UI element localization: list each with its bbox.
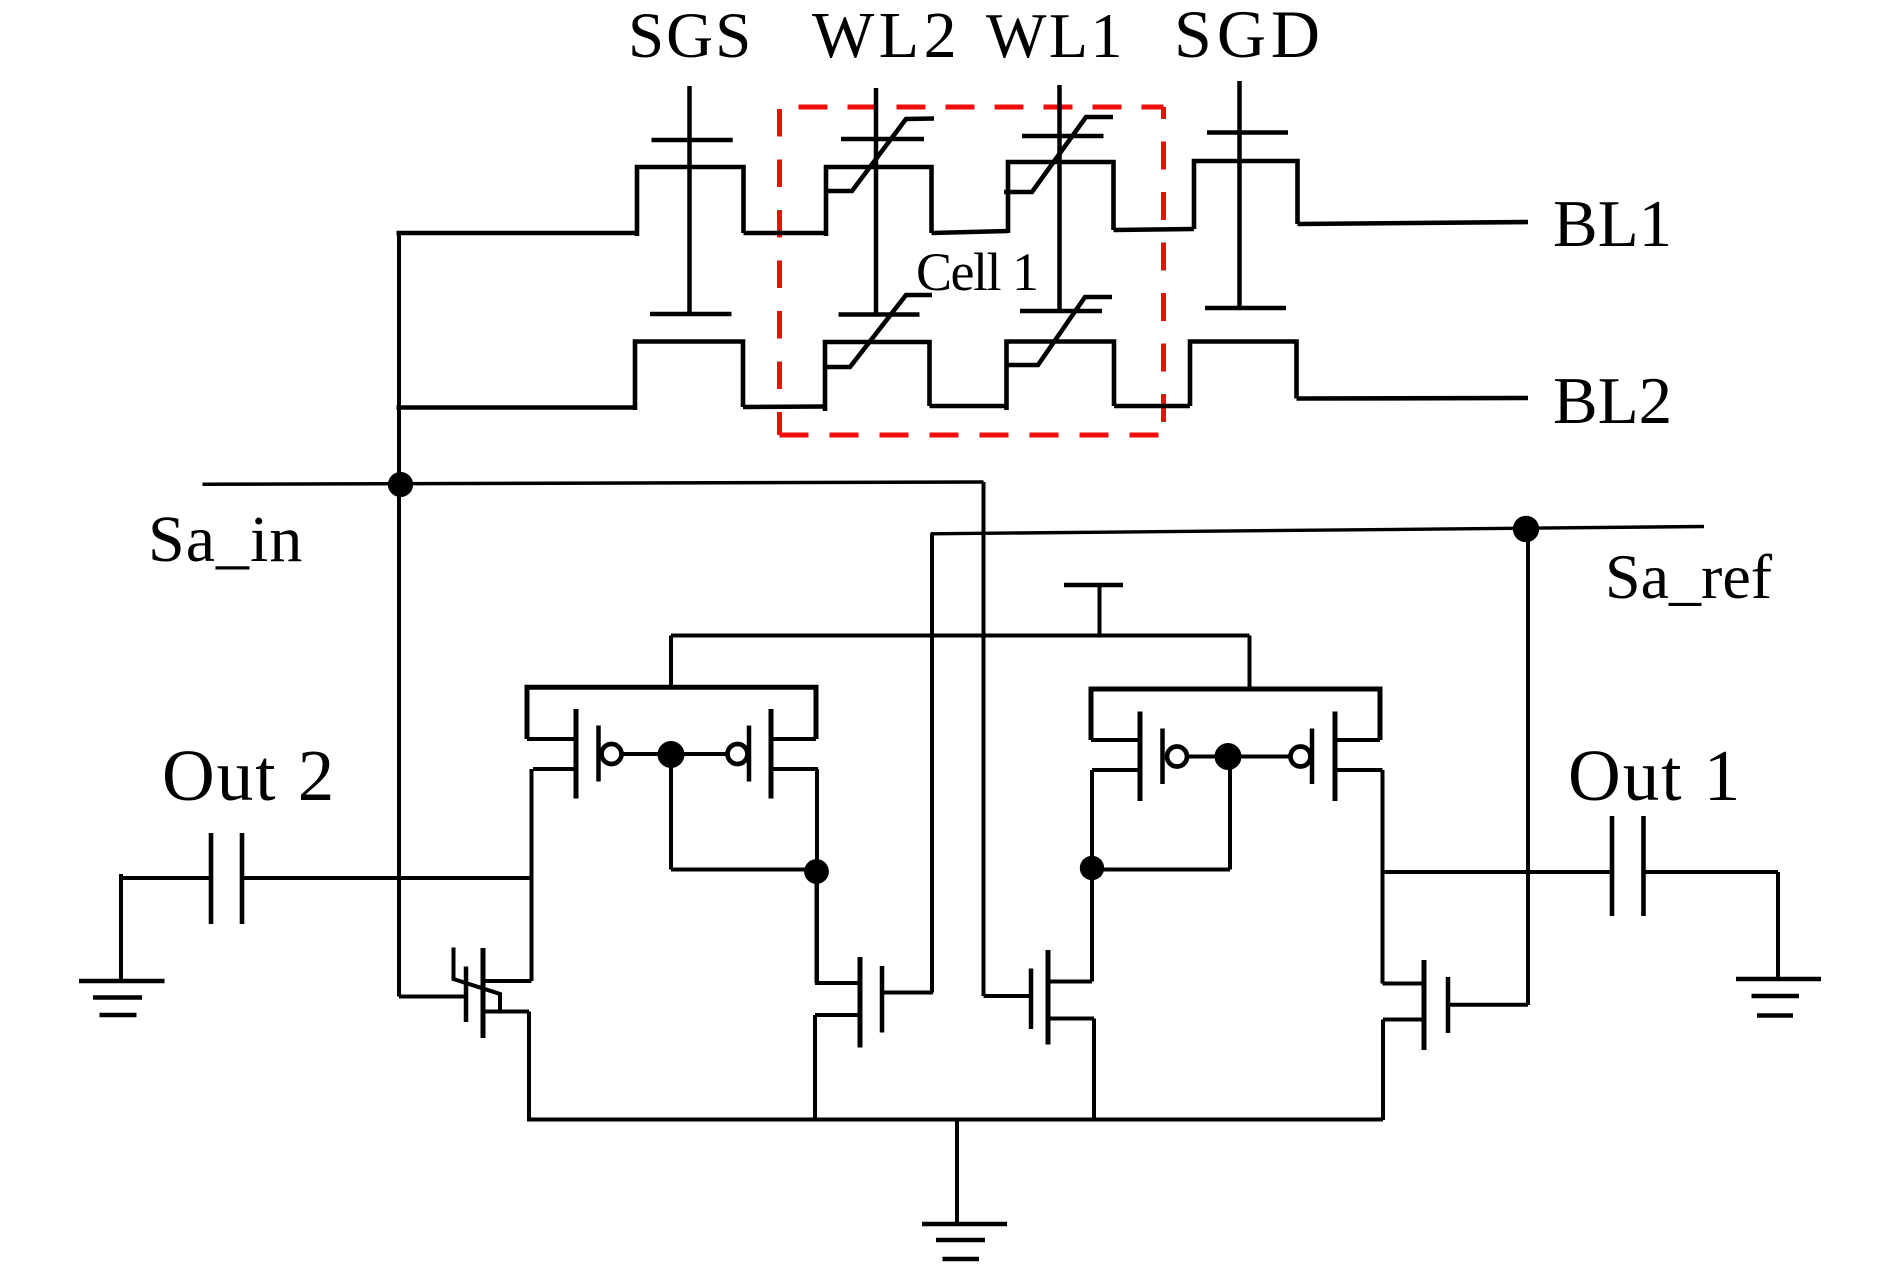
- transistor SGD channel BL2: [1190, 342, 1297, 407]
- ground tail symbol: [922, 1224, 1007, 1259]
- wire BL2 WL1-SGD: [1114, 404, 1190, 409]
- wire P2 drain down: [815, 769, 819, 983]
- nmos M3 gate bar: [880, 966, 885, 1033]
- pmos P3 channel bar: [1138, 712, 1143, 802]
- transistor SGS gate line: [687, 86, 692, 314]
- wire M1 source down: [527, 1012, 531, 1122]
- wire Sa_ref right vertical: [1526, 529, 1530, 1005]
- wire right latch gate: [1188, 755, 1289, 759]
- wire M4 source down: [1381, 1020, 1385, 1121]
- svg-text:SGS: SGS: [628, 0, 753, 72]
- cell WL2-BL2 slash arrow: [826, 295, 932, 367]
- wire tail ground stem: [955, 1120, 959, 1226]
- nmos M2 gate bar: [1029, 969, 1034, 1030]
- pmos P1 drain stub: [533, 767, 576, 771]
- nmos M4 top stub: [1383, 982, 1425, 986]
- cell WL2-BL2 channel: [825, 342, 930, 411]
- wire P1 drain down: [530, 769, 534, 981]
- nmos M1 slash: [454, 948, 501, 1011]
- nmos M4 bottom stub: [1383, 1018, 1424, 1022]
- nmos M4 channel bar: [1422, 960, 1427, 1050]
- wire Out1 left segment: [1383, 870, 1613, 874]
- left latch supply rail: [527, 687, 816, 739]
- nmos M3 channel bar: [858, 957, 863, 1048]
- pmos P4 source stub: [1335, 738, 1380, 742]
- cell WL1-BL2 channel: [1007, 342, 1115, 411]
- nmos M2 channel bar: [1046, 950, 1051, 1045]
- wire Out2 ground drop: [119, 874, 123, 982]
- nmos M4 gate bar: [1446, 977, 1451, 1033]
- transistor SGS bottom gate bar: [650, 312, 732, 317]
- wire BL2 WL2-WL1: [930, 404, 1007, 409]
- transistor SGD top gate bar: [1207, 130, 1288, 135]
- transistor SGS channel BL1: [637, 167, 744, 236]
- pmos P3 drain stub: [1092, 768, 1140, 772]
- nmos M4 gate stub: [1448, 1003, 1528, 1007]
- cell WL2-BL1 control gate bar: [841, 137, 924, 142]
- cell WL1-BL1 control gate bar: [1022, 134, 1104, 139]
- wire tail rail: [529, 1118, 1383, 1122]
- nmos M2 gate stub: [984, 994, 1032, 998]
- pmos P2 channel bar: [769, 709, 774, 799]
- svg-text:WL1: WL1: [986, 0, 1125, 71]
- ground Out2 symbol: [79, 981, 165, 1015]
- wire BL1 right: [1298, 222, 1529, 224]
- pmos P3 source stub: [1091, 738, 1140, 742]
- svg-text:Out 1: Out 1: [1568, 735, 1742, 816]
- ground Out1 symbol: [1736, 979, 1821, 1016]
- node Sa_ref junction dot: [1513, 516, 1539, 542]
- nmos M3 bottom stub: [815, 1013, 860, 1017]
- node left latch output dot: [804, 859, 829, 884]
- wire BL2 left: [397, 405, 636, 410]
- wire right cross-couple horizontal: [1092, 868, 1230, 872]
- nmos M3 gate stub: [882, 991, 933, 995]
- pmos P4 drain stub: [1335, 768, 1383, 772]
- svg-text:Sa_in: Sa_in: [148, 503, 303, 576]
- svg-text:BL2: BL2: [1553, 364, 1672, 438]
- nmos M1 top stub: [483, 979, 532, 983]
- pmos P2 drain stub: [771, 767, 818, 771]
- svg-text:WL2: WL2: [812, 0, 961, 72]
- red dashed box Cell 1: [780, 107, 1164, 435]
- pmos P4 channel bar: [1333, 712, 1338, 802]
- svg-text:Cell 1: Cell 1: [916, 242, 1038, 302]
- wire P4 drain down: [1381, 770, 1385, 984]
- cell WL1-BL2 control gate bar: [1020, 309, 1102, 314]
- wire latch top left drop: [669, 636, 673, 690]
- transistor SGS channel BL2: [635, 342, 743, 411]
- wire Sa_ref left vertical: [930, 534, 934, 993]
- wire Sa_in left vertical: [397, 233, 401, 997]
- pmos P1 gate bubble: [602, 744, 622, 764]
- pmos P3 gate bar: [1160, 729, 1165, 785]
- wire Out1 right segment: [1644, 870, 1779, 874]
- wire Sa_in down vertical: [982, 482, 986, 996]
- cell WL2-BL1 channel: [826, 167, 932, 236]
- nmos M1 gate stub: [399, 995, 466, 999]
- node Sa_in junction dot: [388, 472, 413, 497]
- wire M3 drain up: [815, 872, 819, 984]
- pmos P2 gate bar: [747, 726, 752, 782]
- nmos M2 bottom stub: [1048, 1017, 1094, 1021]
- cell WL1-BL1 channel: [1008, 162, 1114, 233]
- capacitor C1 Out1: [1612, 816, 1644, 916]
- wire left cross-couple vertical: [669, 755, 673, 870]
- wire right cross-couple vertical: [1228, 757, 1232, 870]
- pmos P1 gate bar: [596, 726, 601, 782]
- pmos P1 channel bar: [574, 709, 579, 799]
- wire left latch gate: [623, 752, 727, 756]
- pmos P1 source stub: [527, 737, 576, 741]
- transistor SGS top gate bar: [652, 138, 733, 143]
- cell WL2-BL1 gate line: [874, 88, 879, 315]
- svg-text:SGD: SGD: [1174, 0, 1325, 72]
- nmos M3 top stub: [815, 981, 860, 985]
- svg-text:BL1: BL1: [1553, 187, 1672, 261]
- pmos P4 gate bubble: [1291, 747, 1311, 767]
- cell WL1-BL1 gate line: [1057, 85, 1062, 311]
- wire Out2 left segment: [119, 876, 211, 880]
- wire left cross-couple horizontal: [671, 868, 817, 872]
- cell WL2-BL1 slash arrow: [825, 119, 934, 192]
- wire M3 source down: [813, 1015, 817, 1122]
- wire Sa_ref horizontal: [931, 527, 1705, 534]
- svg-text:Out 2: Out 2: [162, 735, 336, 816]
- nmos M1 gate bar: [464, 967, 469, 1023]
- wire BL1 WL1-SGD: [1114, 229, 1195, 230]
- nmos M2 top stub: [1048, 980, 1092, 984]
- node right latch gate dot: [1215, 743, 1242, 770]
- wire Sa_in horizontal: [203, 482, 984, 484]
- pmos P3 gate bubble: [1167, 747, 1187, 767]
- wire M2 source down: [1092, 1019, 1096, 1122]
- wire BL1 WL2-WL1: [932, 231, 1009, 233]
- wire latch top horizontal: [671, 634, 1250, 638]
- wire Out1 ground drop: [1776, 872, 1780, 979]
- svg-text:Sa_ref: Sa_ref: [1605, 541, 1773, 612]
- pmos P2 source stub: [771, 737, 816, 741]
- wire P3 drain down: [1090, 770, 1094, 982]
- capacitor C2 Out2: [211, 833, 242, 924]
- wire BL1 SGS-WL2: [744, 231, 827, 236]
- cell WL1-BL1 slash arrow: [1004, 117, 1113, 192]
- node left latch gate dot: [658, 741, 685, 768]
- wire BL1 left: [397, 231, 638, 236]
- transistor SGD gate line: [1237, 81, 1242, 308]
- pmos P4 gate bar: [1310, 729, 1315, 785]
- nmos M1 bottom stub: [483, 1010, 529, 1014]
- transistor SGD channel BL1: [1194, 161, 1298, 229]
- right latch supply rail: [1091, 689, 1380, 740]
- wire latch top right drop: [1248, 636, 1252, 692]
- cell WL1-BL2 slash arrow: [1007, 297, 1113, 365]
- node right latch output dot: [1080, 856, 1104, 880]
- nmos M1 channel bar: [481, 948, 486, 1038]
- precharge gate T symbol: [1064, 585, 1123, 638]
- pmos P2 gate bubble: [728, 744, 748, 764]
- wire BL2 SGS-WL2: [743, 404, 825, 409]
- wire Out2 right segment: [242, 876, 532, 880]
- wire BL2 right: [1297, 396, 1529, 401]
- cell WL2-BL2 control gate bar: [839, 312, 920, 317]
- transistor SGD bottom gate bar: [1205, 306, 1286, 311]
